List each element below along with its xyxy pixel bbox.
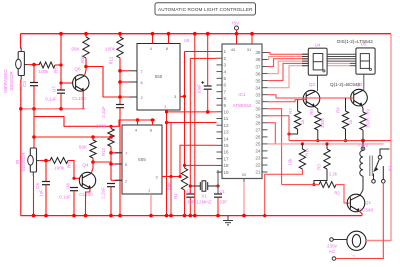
svg-text:8: 8 bbox=[224, 96, 227, 101]
wire pin35 to segment bus bbox=[268, 63, 309, 80]
wire pin34 to segment bus bbox=[268, 66, 309, 88]
bias line y137 to R13 bbox=[34, 136, 111, 138]
svg-text:38: 38 bbox=[255, 57, 261, 62]
svg-text:Q3: Q3 bbox=[356, 82, 363, 87]
svg-text:R14: R14 bbox=[304, 147, 309, 155]
U9 pin1 to ground wire bbox=[166, 110, 168, 216]
base branch down to R7 bbox=[297, 100, 299, 111]
resistor 330R (Q2) bbox=[315, 112, 321, 130]
svg-text:Q1: Q1 bbox=[365, 200, 372, 205]
bottom ground rail bbox=[21, 215, 363, 217]
segment bus between displays bbox=[327, 53, 356, 55]
svg-text:AC: AC bbox=[329, 249, 336, 254]
svg-text:AUTOMATIC ROOM LIGHT CONTROLLE: AUTOMATIC ROOM LIGHT CONTROLLER bbox=[158, 7, 253, 12]
wire U8 pin3 up to IC1 pin15 bbox=[180, 145, 217, 176]
wire R12 to U9 pin7 bbox=[120, 70, 130, 72]
resistor R6 100k bbox=[50, 158, 68, 164]
+5V power symbol bbox=[231, 21, 240, 45]
svg-text:U7: U7 bbox=[52, 86, 57, 92]
U9 pin3 output wire to IC1 bbox=[180, 95, 185, 97]
IC1 left pin numbers bbox=[224, 49, 230, 175]
svg-text:IR: IR bbox=[15, 159, 20, 164]
svg-text:R9: R9 bbox=[366, 109, 371, 115]
svg-text:27: 27 bbox=[255, 128, 261, 133]
svg-text:29: 29 bbox=[255, 114, 261, 119]
svg-text:Q4: Q4 bbox=[82, 163, 89, 168]
electrolytic capacitor 10uF at RST bbox=[201, 32, 212, 114]
svg-text:R12: R12 bbox=[109, 56, 114, 64]
svg-text:34: 34 bbox=[255, 85, 261, 90]
svg-text:555: 555 bbox=[155, 74, 163, 79]
resistor R1 56K bbox=[181, 168, 187, 190]
svg-text:1uF: 1uF bbox=[18, 83, 23, 91]
svg-text:40: 40 bbox=[231, 47, 236, 52]
IC U9 555 box bbox=[137, 38, 190, 110]
capacitor U6 0.1uF bbox=[70, 188, 78, 216]
svg-text:2: 2 bbox=[224, 56, 227, 61]
wire to Q4 base bbox=[68, 161, 80, 179]
wire pin36 to segment bus bbox=[268, 61, 309, 74]
svg-text:10k: 10k bbox=[288, 158, 293, 166]
svg-text:33P: 33P bbox=[220, 200, 228, 205]
capacitor C3 1uF bbox=[30, 65, 38, 109]
wire pin29 digit select down bbox=[268, 116, 290, 141]
svg-text:31: 31 bbox=[247, 47, 252, 52]
capacitor C4 2.2uF bbox=[116, 95, 124, 215]
svg-text:30: 30 bbox=[255, 106, 261, 111]
resistor 1k (Q3) bbox=[342, 111, 348, 129]
capacitor C5 2.2uF bbox=[107, 184, 115, 216]
wire IC1 pin18 row bbox=[185, 164, 217, 166]
wire to U8 pin6 bbox=[111, 163, 122, 165]
svg-text:230v: 230v bbox=[327, 244, 338, 249]
ground symbol bbox=[223, 216, 233, 225]
svg-text:10uF: 10uF bbox=[197, 84, 202, 94]
svg-text:SENSOR: SENSOR bbox=[9, 71, 14, 91]
svg-text:X1: X1 bbox=[201, 194, 207, 199]
svg-text:IC1: IC1 bbox=[238, 92, 246, 97]
rail T bbox=[289, 140, 391, 142]
wire to U8 pin7 bbox=[111, 152, 122, 154]
resistor R14 10k bbox=[299, 144, 305, 169]
svg-text:BC548: BC548 bbox=[359, 208, 373, 213]
svg-text:U2: U2 bbox=[185, 189, 191, 194]
capacitor U2 33P bbox=[186, 194, 194, 216]
svg-text:R3: R3 bbox=[316, 164, 321, 170]
svg-text:25: 25 bbox=[255, 142, 261, 147]
resistor 56K (channel2) bbox=[90, 137, 96, 162]
R14 bottom to ground bbox=[265, 169, 303, 216]
svg-text:0.1uF: 0.1uF bbox=[59, 195, 71, 200]
svg-text:17: 17 bbox=[224, 156, 230, 161]
lamp bulb bbox=[347, 231, 366, 250]
U8 pin1 to ground bbox=[150, 194, 152, 216]
svg-text:R7: R7 bbox=[288, 108, 293, 114]
wire R12 to U9 pin6 bbox=[120, 81, 130, 83]
svg-text:∿: ∿ bbox=[352, 253, 356, 258]
IR sensor 2 bbox=[28, 148, 40, 176]
resistor 330R (Q3) bbox=[360, 112, 366, 130]
svg-text:U9: U9 bbox=[184, 38, 190, 43]
lamp terminal left bbox=[330, 238, 334, 242]
svg-text:R8: R8 bbox=[309, 109, 314, 115]
wire crystal to IC1 pin19 bbox=[218, 170, 222, 172]
U8 supply stubs bbox=[137, 120, 139, 125]
Q1 emitter to ground rail bbox=[358, 211, 362, 216]
svg-text:330R: 330R bbox=[320, 118, 325, 128]
U9 supply stubs to rail bbox=[152, 34, 154, 44]
resistor R13 100k bbox=[108, 125, 114, 181]
svg-text:36: 36 bbox=[255, 71, 261, 76]
resistor R10 56K bbox=[83, 34, 89, 67]
svg-text:R10: R10 bbox=[80, 54, 85, 62]
infrared sensor TX1 bbox=[16, 48, 28, 80]
svg-text:22: 22 bbox=[255, 163, 261, 168]
U9 left pin stubs bbox=[130, 70, 138, 72]
long vertical rail-to-rail wire bbox=[194, 34, 196, 216]
sensor2 out wire bbox=[40, 160, 50, 162]
lamp bottom terminal bbox=[332, 257, 336, 261]
svg-text:18: 18 bbox=[224, 163, 230, 168]
svg-text:11: 11 bbox=[224, 116, 229, 121]
wire Q4 collector to 555 U8 bbox=[93, 161, 111, 163]
lamp right wire to border bbox=[366, 240, 391, 242]
svg-text:10: 10 bbox=[224, 110, 230, 115]
transistor Q2 BC548 bbox=[303, 90, 320, 107]
svg-text:26: 26 bbox=[255, 135, 261, 140]
wire pin33 to Q3 base bbox=[268, 95, 354, 98]
IC1 pin20 ground wire bbox=[242, 179, 246, 218]
display DIS2 LTS542 U5 bbox=[356, 48, 375, 74]
Q4 emitter to rail bbox=[86, 188, 90, 216]
wire U5 common to Q3 collector bbox=[363, 74, 365, 90]
relay contact terminals bbox=[372, 166, 385, 183]
svg-text:CL100: CL100 bbox=[72, 96, 86, 101]
transistor Q1 BC548 bbox=[347, 194, 365, 212]
svg-text:1: 1 bbox=[224, 49, 227, 54]
relay core bars bbox=[369, 156, 371, 177]
svg-text:U6: U6 bbox=[66, 183, 71, 189]
IC1 right pin stubs bbox=[262, 53, 268, 173]
+12V power symbol bbox=[361, 139, 365, 143]
svg-text:24: 24 bbox=[255, 149, 261, 154]
svg-text:23: 23 bbox=[255, 156, 261, 161]
svg-text:33: 33 bbox=[255, 92, 261, 97]
svg-text:100k: 100k bbox=[105, 47, 116, 52]
svg-text:U1: U1 bbox=[220, 189, 226, 194]
wire sensor1 out to node bbox=[28, 64, 39, 66]
top +5V supply rail bbox=[21, 33, 392, 35]
transistor Q4 CL100 bbox=[79, 172, 95, 188]
bias wire from rail to base node bbox=[60, 34, 62, 90]
capacitor C6 1uF bbox=[42, 161, 50, 216]
svg-text:0.1uF: 0.1uF bbox=[45, 97, 57, 102]
svg-text:20: 20 bbox=[242, 172, 247, 177]
svg-text:7: 7 bbox=[224, 89, 227, 94]
svg-text:56K: 56K bbox=[79, 145, 88, 150]
wire U9 pin1/ground net to IC1 pin10 bbox=[167, 34, 217, 216]
svg-text:56K: 56K bbox=[167, 181, 172, 190]
svg-text:5: 5 bbox=[224, 76, 227, 81]
svg-text:+5V: +5V bbox=[231, 21, 240, 26]
IC U8 555 box bbox=[122, 120, 171, 194]
svg-text:Q6: Q6 bbox=[74, 67, 81, 72]
resistor R7 1k bbox=[294, 111, 300, 129]
wire pin30 to R2 row bbox=[282, 184, 319, 186]
svg-text:555: 555 bbox=[138, 157, 146, 162]
svg-text:35: 35 bbox=[255, 78, 261, 83]
pin31 stub to rail bbox=[250, 32, 254, 44]
svg-text:DIS(1-2)=LTS542: DIS(1-2)=LTS542 bbox=[337, 39, 373, 44]
svg-text:37: 37 bbox=[255, 64, 261, 69]
svg-text:R1: R1 bbox=[173, 193, 178, 199]
stepped wire to 555 U8 supply pins bbox=[34, 117, 155, 127]
svg-text:100k: 100k bbox=[39, 69, 50, 74]
svg-text:AT89S52: AT89S52 bbox=[233, 103, 252, 108]
transistor Q6 CL100 bbox=[73, 75, 89, 91]
wire ground branch x171 bbox=[170, 123, 172, 216]
title box AUTOMATIC ROOM LIGHT CONTROLLER bbox=[155, 3, 256, 15]
wire net pin1 of IC1 down the middle bbox=[185, 51, 217, 53]
svg-text:2.2uF: 2.2uF bbox=[101, 187, 106, 199]
base branch down to 1k (Q3) bbox=[345, 98, 347, 111]
svg-text:21: 21 bbox=[255, 170, 261, 175]
svg-text:14: 14 bbox=[224, 136, 230, 141]
svg-text:INFRARED: INFRARED bbox=[3, 69, 8, 93]
wire pin28 down to +12V rail B bbox=[268, 123, 276, 144]
svg-text:100k: 100k bbox=[54, 166, 65, 171]
svg-text:32: 32 bbox=[255, 99, 261, 104]
svg-text:SENSOR: SENSOR bbox=[21, 152, 26, 172]
svg-text:330R: 330R bbox=[365, 118, 370, 128]
resistor R12 100k bbox=[117, 34, 123, 105]
U8 pin3 output row bbox=[162, 176, 180, 178]
svg-text:Q2: Q2 bbox=[309, 82, 316, 87]
svg-text:R13: R13 bbox=[101, 147, 106, 155]
wire mid rail down to sensor2 line bbox=[33, 109, 35, 148]
svg-text:C6: C6 bbox=[35, 183, 40, 189]
svg-text:12MHZ: 12MHZ bbox=[196, 200, 211, 205]
crystal X1 12MHZ bbox=[190, 181, 218, 191]
wire IC1 pin2 to crystal column bbox=[190, 57, 216, 59]
svg-text:12: 12 bbox=[224, 123, 230, 128]
svg-text:2.2k: 2.2k bbox=[329, 172, 338, 177]
wire pin32 to Q2 base bbox=[268, 100, 307, 102]
svg-text:2.2uF: 2.2uF bbox=[101, 106, 106, 118]
transistor Q3 BC548 bbox=[351, 89, 368, 106]
svg-text:K1: K1 bbox=[388, 165, 393, 171]
svg-text:+12V: +12V bbox=[358, 143, 370, 148]
wire left drop from rail to sensor1 bbox=[20, 34, 22, 49]
svg-text:56K: 56K bbox=[71, 47, 80, 52]
Q6 collector wire to node bbox=[85, 67, 87, 76]
relay contact common bbox=[374, 149, 389, 171]
svg-text:15: 15 bbox=[224, 143, 230, 148]
resistor R3 2.2k bbox=[314, 144, 330, 185]
display DIS1 LTS542 U4 bbox=[308, 48, 327, 75]
capacitor U7 0.1uF bbox=[57, 90, 65, 109]
svg-text:6: 6 bbox=[224, 83, 227, 88]
wire to Q6 base bbox=[61, 82, 73, 84]
coil bottom to Q1 collector bbox=[362, 176, 364, 190]
rail B (pin25 wire) bbox=[268, 143, 384, 145]
U8 left pin stubs bbox=[115, 152, 122, 154]
wire Q6 collector to 555 U9 pin2 bbox=[86, 67, 130, 98]
svg-text:9: 9 bbox=[224, 103, 227, 108]
svg-text:R5: R5 bbox=[54, 67, 59, 73]
right border wire bbox=[366, 34, 391, 241]
wire sensor1 bottom to ground rail bbox=[20, 80, 22, 216]
node dots bbox=[19, 107, 23, 111]
IC1 right pin numbers bbox=[255, 50, 261, 175]
svg-text:100k: 100k bbox=[96, 124, 107, 129]
IC1 box bbox=[222, 44, 262, 179]
svg-text:28: 28 bbox=[255, 121, 261, 126]
sensor2 bottom to rail bbox=[33, 176, 35, 216]
svg-text:1uF: 1uF bbox=[39, 189, 44, 197]
svg-text:R2: R2 bbox=[334, 191, 340, 196]
wire R2 to Q1 base bbox=[336, 185, 350, 203]
wire pin38 to segment bus bbox=[268, 57, 309, 60]
resistor R5 100k bbox=[39, 62, 55, 68]
wire bottom terminal to relay contact bbox=[336, 183, 384, 258]
svg-text:19: 19 bbox=[224, 170, 230, 175]
svg-text:39: 39 bbox=[255, 50, 261, 55]
R7 to digit select wire bbox=[289, 129, 298, 134]
svg-text:33P: 33P bbox=[187, 200, 195, 205]
resistor R2 bbox=[319, 182, 336, 188]
wire pin37 to segment bus bbox=[268, 59, 309, 67]
capacitor U3 33P bbox=[214, 170, 222, 217]
mid ground rail of channel 1 bbox=[21, 108, 85, 110]
svg-text:CL100: CL100 bbox=[79, 192, 93, 197]
svg-text:R4: R4 bbox=[336, 107, 341, 113]
svg-text:3: 3 bbox=[224, 63, 227, 68]
wire U4 common to Q2 collector bbox=[317, 75, 319, 91]
Q1 collector wire bbox=[360, 190, 363, 195]
Q2 emitter to 330R bbox=[314, 106, 318, 112]
IC1 left pin stubs bbox=[217, 52, 223, 173]
wire pin30 digit select down bbox=[268, 109, 282, 185]
Q6 emitter wire to mid rail bbox=[82, 90, 84, 108]
wire to U8 pin2 bbox=[111, 179, 122, 181]
svg-text:13: 13 bbox=[224, 130, 230, 135]
relay coil bbox=[360, 151, 363, 177]
svg-text:R6: R6 bbox=[67, 162, 72, 168]
Q3 emitter to 330R bbox=[361, 105, 363, 112]
wire pin39 to segment bus bbox=[268, 53, 309, 55]
svg-text:16: 16 bbox=[224, 150, 230, 155]
Q4 collector node bbox=[91, 162, 93, 173]
svg-text:4: 4 bbox=[224, 69, 227, 74]
wire IC1 pin12 row bbox=[167, 122, 217, 124]
svg-text:U4: U4 bbox=[315, 43, 321, 48]
